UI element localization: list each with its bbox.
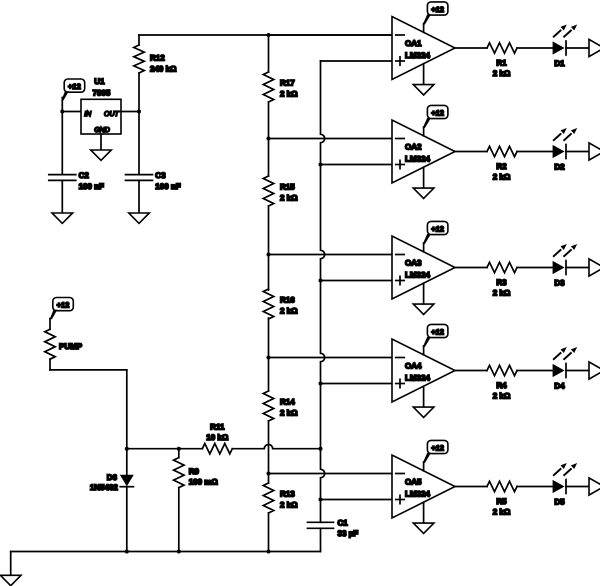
wire OA1 output [455, 47, 487, 49]
svg-text:D3: D3 [554, 279, 565, 288]
wire OA4 + input [321, 383, 393, 385]
resistor R3 [487, 262, 553, 297]
svg-text:IN: IN [84, 111, 92, 118]
resistor R12 [134, 35, 177, 112]
node ladder tap 2 [267, 137, 271, 141]
node R9 bottom junction [177, 550, 181, 554]
svg-text:LM324: LM324 [405, 490, 430, 499]
svg-text:R2: R2 [496, 162, 507, 171]
pin output 4 [589, 362, 600, 379]
wire OA1 V- stem [423, 64, 425, 85]
svg-text:D1: D1 [554, 59, 565, 68]
node ladder bottom junction [267, 550, 271, 554]
node R11 to bus junction [319, 447, 323, 451]
svg-text:OA5: OA5 [405, 478, 422, 487]
svg-text:2 kΩ: 2 kΩ [280, 409, 298, 418]
svg-text:R17: R17 [280, 79, 295, 88]
svg-text:+12: +12 [431, 327, 444, 336]
power flag +12 (OA4) [423, 324, 448, 354]
op-amp OA1 LM324 [392, 17, 455, 80]
svg-text:100 nF: 100 nF [79, 182, 104, 191]
ground (OA5) [413, 523, 434, 533]
svg-text:R3: R3 [496, 278, 507, 287]
resistor R2 [487, 146, 553, 181]
svg-text:R15: R15 [280, 183, 295, 192]
op-amp OA2 LM324 [392, 120, 455, 183]
ground (OA4) [413, 407, 434, 417]
pin output 3 [589, 259, 600, 276]
svg-text:+12: +12 [68, 82, 81, 91]
power flag +12 (OA1) [423, 2, 448, 32]
svg-text:+12: +12 [57, 300, 70, 309]
wire D4 to output pin [566, 370, 589, 372]
svg-text:R16: R16 [280, 296, 295, 305]
node R9 top junction [177, 447, 181, 451]
node OA5 + input junction [319, 498, 323, 502]
svg-text:+12: +12 [431, 5, 444, 14]
svg-text:D5: D5 [554, 498, 565, 507]
pin output 1 [589, 39, 600, 56]
ground (bottom rail) [0, 575, 21, 585]
LED D2 [553, 128, 578, 172]
svg-text:100 mΩ: 100 mΩ [189, 478, 219, 487]
resistor R16 [263, 289, 298, 319]
wire OA5 V- stem [423, 502, 425, 523]
wire D5 to output pin [566, 486, 589, 488]
svg-text:PUMP: PUMP [59, 342, 83, 351]
power flag +12 (PUMP) [50, 298, 74, 320]
wire OA4 - input tap [269, 357, 393, 359]
power flag +12 (U1 input) [61, 79, 84, 101]
svg-text:D6: D6 [107, 473, 118, 482]
svg-text:R13: R13 [280, 490, 295, 499]
svg-text:R9: R9 [189, 467, 200, 476]
wire OA3 - input tap [269, 254, 393, 256]
svg-text:240 kΩ: 240 kΩ [150, 65, 177, 74]
op-amp OA5 LM324 [392, 455, 455, 518]
svg-text:2 kΩ: 2 kΩ [280, 90, 298, 99]
svg-text:2 kΩ: 2 kΩ [493, 173, 511, 182]
wire U1 GND stem [100, 134, 102, 150]
wire + input signal bus (with crossover hops) [321, 61, 393, 522]
svg-text:C2: C2 [79, 171, 90, 180]
svg-text:2 kΩ: 2 kΩ [493, 508, 511, 517]
wire OA5 - input tap [269, 473, 393, 475]
resistor R11 (with hop over ladder) [179, 422, 321, 454]
wire OA2 output [455, 151, 487, 153]
ground (OA3) [413, 304, 434, 314]
svg-text:10 kΩ: 10 kΩ [206, 433, 229, 442]
resistor R15 [263, 176, 298, 206]
wire D3 to output pin [566, 267, 589, 269]
resistor R13 [263, 483, 298, 513]
node OA4 + input junction [319, 382, 323, 386]
ground (OA2) [413, 188, 434, 198]
ground (C2) [52, 213, 73, 223]
resistor PUMP [45, 319, 83, 370]
svg-text:LM324: LM324 [405, 155, 430, 164]
svg-text:+12: +12 [431, 108, 444, 117]
voltage regulator U1 7805 [81, 77, 121, 134]
wire OA1 - input tap [269, 34, 393, 36]
svg-text:LM324: LM324 [405, 51, 430, 60]
node pump/D6 junction [125, 447, 129, 451]
node OA2 + input junction [319, 163, 323, 167]
node ladder tap 5 [267, 472, 271, 476]
power flag +12 (OA2) [423, 105, 448, 135]
op-amp OA3 LM324 [392, 236, 455, 299]
svg-text:OA2: OA2 [405, 143, 422, 152]
wire OA4 V- stem [423, 386, 425, 407]
svg-text:R14: R14 [280, 398, 295, 407]
LED D4 [553, 347, 578, 391]
resistor R5 [487, 481, 553, 516]
wire D1 to output pin [566, 47, 589, 49]
wire OA5 + input [321, 499, 393, 501]
capacitor C2 [49, 112, 104, 214]
svg-text:7805: 7805 [93, 88, 111, 97]
svg-text:R5: R5 [496, 497, 507, 506]
svg-text:+12: +12 [431, 443, 444, 452]
svg-text:D4: D4 [554, 382, 565, 391]
diode D6 1N5402 [90, 449, 134, 552]
node D6 bottom junction [125, 550, 129, 554]
capacitor C3 [126, 112, 181, 214]
node ladder tap 4 [267, 356, 271, 360]
svg-text:R12: R12 [150, 54, 165, 63]
wire OA3 + input [321, 280, 393, 282]
svg-text:C1: C1 [338, 519, 349, 528]
pin output 2 [589, 143, 600, 160]
power flag +12 (OA3) [423, 221, 448, 251]
svg-text:2 kΩ: 2 kΩ [280, 194, 298, 203]
svg-text:OUT: OUT [104, 111, 120, 118]
svg-text:R1: R1 [496, 59, 507, 68]
svg-text:OA3: OA3 [405, 259, 422, 268]
LED D5 [553, 463, 578, 507]
svg-text:LM324: LM324 [405, 374, 430, 383]
wire OA2 + input [321, 164, 393, 166]
wire OA5 output [455, 486, 487, 488]
wire D6 column to sense node [127, 448, 179, 450]
LED D3 [553, 244, 578, 288]
svg-text:1N5402: 1N5402 [90, 483, 119, 492]
node ladder top junction [267, 33, 271, 37]
resistor R14 [263, 391, 298, 421]
svg-text:GND: GND [94, 127, 110, 134]
wire U1 OUT to node [121, 111, 139, 113]
svg-text:2 kΩ: 2 kΩ [493, 289, 511, 298]
LED D1 [553, 25, 578, 69]
svg-text:+12: +12 [431, 224, 444, 233]
node OA3 + input junction [319, 279, 323, 283]
wire top rail [139, 34, 392, 36]
pin output 5 [589, 478, 600, 495]
wire OA2 - input tap [269, 138, 393, 140]
ground (U1) [91, 150, 112, 160]
wire D2 to output pin [566, 151, 589, 153]
svg-text:OA1: OA1 [405, 39, 422, 48]
svg-text:R4: R4 [496, 381, 507, 390]
node U1 output junction [137, 110, 141, 114]
svg-text:2 kΩ: 2 kΩ [280, 307, 298, 316]
capacitor C1 [308, 519, 359, 552]
wire OA3 V- stem [423, 283, 425, 304]
wire OA2 V- stem [423, 167, 425, 188]
wire OA3 output [455, 267, 487, 269]
resistor R4 [487, 365, 553, 400]
svg-text:2 kΩ: 2 kΩ [280, 501, 298, 510]
svg-text:33 µF: 33 µF [338, 529, 359, 538]
resistor R17 [263, 72, 298, 102]
svg-text:U1: U1 [94, 77, 105, 86]
ground (OA1) [413, 85, 434, 95]
svg-text:2 kΩ: 2 kΩ [493, 392, 511, 401]
svg-text:R11: R11 [210, 422, 225, 431]
node ladder tap 3 [267, 253, 271, 257]
svg-text:2 kΩ: 2 kΩ [493, 69, 511, 78]
resistor R9 [174, 449, 219, 552]
svg-text:LM324: LM324 [405, 271, 430, 280]
wire bottom ground rail [11, 552, 321, 576]
node U1 input junction [60, 110, 64, 114]
op-amp OA4 LM324 [392, 339, 455, 402]
svg-text:100 nF: 100 nF [155, 182, 180, 191]
wire OA4 output [455, 370, 487, 372]
svg-text:D2: D2 [554, 163, 565, 172]
power flag +12 (OA5) [423, 440, 448, 470]
wire ladder vertical segments [268, 35, 270, 552]
wire pump to D6 column [50, 370, 127, 449]
ground (C3) [129, 213, 150, 223]
svg-text:C3: C3 [155, 171, 166, 180]
resistor R1 [487, 43, 553, 78]
wire +12 input node to U1 IN [62, 98, 81, 112]
svg-text:OA4: OA4 [405, 362, 422, 371]
